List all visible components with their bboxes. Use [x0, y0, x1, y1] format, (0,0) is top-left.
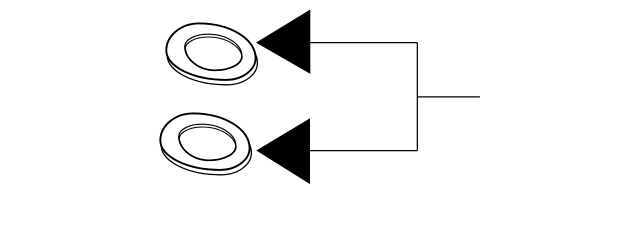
washer 1 (top)	[166, 23, 257, 84]
bracket: bottom line	[310, 150, 417, 152]
arrow 1 (top, pointing left)	[256, 10, 310, 74]
washer 2 inner hole rim	[179, 124, 236, 160]
bracket: right vertical line	[416, 43, 418, 151]
washer 2 (bottom)	[160, 113, 251, 174]
washer 2 hole inner wall	[179, 127, 236, 163]
washer 1 hole inner wall	[185, 37, 242, 73]
bracket: top line	[310, 42, 417, 44]
washer 1 inner hole rim bottom arc	[185, 46, 242, 70]
arrow 2 (bottom, pointing left)	[256, 118, 310, 184]
washer 2 outer top ellipse	[160, 113, 249, 169]
washer 1 inner hole rim	[185, 34, 242, 70]
washer 1 outer top ellipse	[166, 23, 255, 79]
washer 2 bottom thickness rim	[161, 118, 251, 175]
washer 2 inner hole rim bottom arc	[179, 136, 236, 160]
stub output line	[417, 96, 480, 98]
washer 1 bottom thickness rim	[167, 28, 257, 85]
